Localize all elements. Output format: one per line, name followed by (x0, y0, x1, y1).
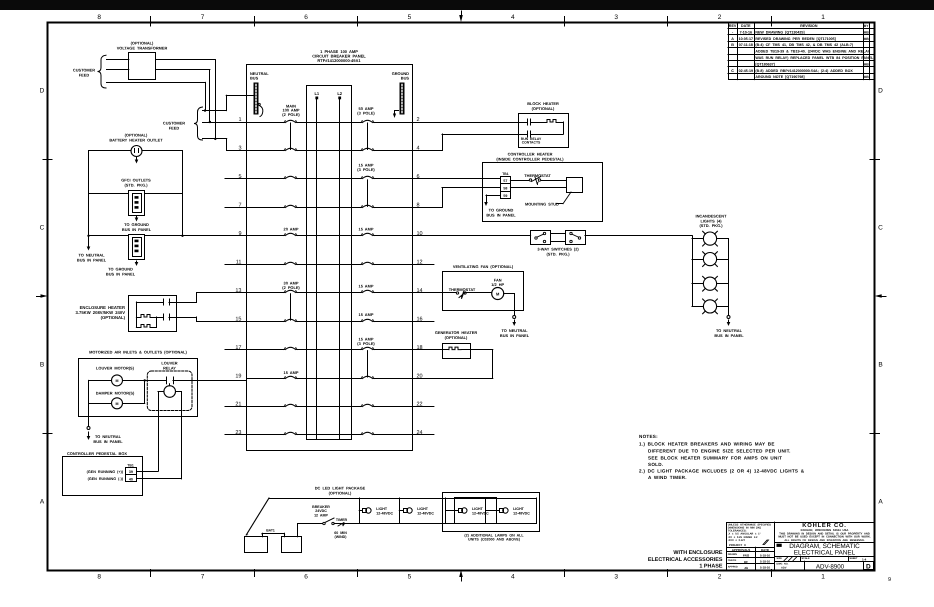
svg-text:12-48VDC: 12-48VDC (417, 511, 434, 515)
svg-text:BUS: BUS (401, 76, 410, 81)
svg-text:APPROVALS: APPROVALS (732, 548, 750, 552)
svg-text:THERMOSTAT: THERMOSTAT (524, 173, 551, 178)
svg-text:MOUNTING STUD: MOUNTING STUD (525, 201, 559, 206)
svg-text:DWG NO.: DWG NO. (777, 563, 789, 566)
svg-text:2.) DC LIGHT PACKAGE INCLUDES: 2.) DC LIGHT PACKAGE INCLUDES (2 OR 4) 1… (639, 469, 805, 474)
svg-text:DATE: DATE (761, 548, 769, 552)
svg-text:WITH ENCLOSURE: WITH ENCLOSURE (673, 550, 723, 556)
svg-text:VOLTAGE TRANSFORMER: VOLTAGE TRANSFORMER (117, 45, 168, 50)
svg-text:7-10-16: 7-10-16 (740, 30, 752, 34)
svg-text:REVISION: REVISION (800, 24, 818, 28)
svg-text:BUS IN PANEL: BUS IN PANEL (106, 271, 136, 276)
svg-text:(GEN RUNNING (-)): (GEN RUNNING (-)) (88, 477, 124, 481)
svg-text:24VDC: 24VDC (315, 509, 327, 513)
svg-text:(STD. PKG.): (STD. PKG.) (546, 251, 570, 256)
svg-text:B: B (40, 362, 44, 369)
svg-text:12-48VDC: 12-48VDC (376, 511, 393, 515)
svg-text:(OPTIONAL): (OPTIONAL) (101, 315, 126, 320)
svg-text:4: 4 (511, 14, 515, 21)
svg-text:07-11-18: 07-11-18 (739, 43, 753, 47)
svg-text:20 AMP: 20 AMP (284, 227, 299, 232)
svg-text:1: 1 (821, 574, 825, 581)
svg-text:LIGHT: LIGHT (376, 507, 388, 511)
svg-text:(2) ADDITIONAL LAMPS ON ALL: (2) ADDITIONAL LAMPS ON ALL (464, 533, 524, 537)
svg-text:ADV: ADV (781, 566, 787, 569)
svg-text:(3 POLE): (3 POLE) (357, 341, 375, 346)
svg-text:5-18-16: 5-18-16 (760, 553, 770, 557)
svg-text:LOUVER MOTOR(S): LOUVER MOTOR(S) (96, 366, 135, 371)
svg-text:(GEN RUNNING (+)): (GEN RUNNING (+)) (87, 470, 124, 474)
svg-text:8: 8 (97, 14, 101, 21)
svg-text:THERMOSTAT: THERMOSTAT (449, 287, 476, 292)
svg-text:39: 39 (129, 470, 133, 474)
svg-text:5-18-16: 5-18-16 (760, 566, 770, 570)
svg-text:12-48VDC: 12-48VDC (513, 511, 530, 515)
svg-text:BUS IN PANEL: BUS IN PANEL (122, 227, 152, 232)
svg-text:40: 40 (129, 477, 133, 481)
svg-text:3: 3 (614, 574, 618, 581)
svg-text:1 PHASE: 1 PHASE (699, 563, 722, 569)
svg-text:.XXX ± 0.127: .XXX ± 0.127 (728, 539, 746, 542)
svg-text:24: 24 (417, 430, 423, 436)
svg-text:CHECK: CHECK (728, 559, 737, 562)
svg-text:6: 6 (417, 174, 420, 180)
svg-text:02-45-19: 02-45-19 (739, 69, 753, 73)
svg-text:2: 2 (718, 14, 722, 21)
svg-text:(WIND): (WIND) (335, 535, 348, 539)
svg-text:BREAKER: BREAKER (312, 505, 330, 509)
svg-text:15 AMP: 15 AMP (359, 284, 374, 289)
svg-text:ALL RIGHTS OF DESIGN AND INVEN: ALL RIGHTS OF DESIGN AND INVENTION ARE R… (784, 539, 865, 542)
svg-text:L2: L2 (337, 91, 342, 96)
svg-text:FEED: FEED (79, 73, 90, 78)
svg-text:4: 4 (511, 574, 515, 581)
svg-text:7: 7 (201, 574, 205, 581)
svg-text:10: 10 (417, 231, 423, 237)
svg-text:C: C (40, 225, 45, 232)
svg-text:1.) BLOCK HEATER BREAKERS AND: 1.) BLOCK HEATER BREAKERS AND WIRING MAY… (639, 442, 775, 447)
svg-text:12-48VDC: 12-48VDC (472, 511, 489, 515)
svg-text:REV: REV (729, 24, 737, 28)
svg-text:1/2 HP: 1/2 HP (491, 282, 504, 287)
svg-text:MB: MB (864, 37, 870, 41)
svg-text:AROUND NOTE [QT190798]: AROUND NOTE [QT190798] (755, 75, 804, 79)
svg-text:CONTACTS: CONTACTS (522, 141, 541, 145)
svg-text:BATTERY HEATER OUTLET: BATTERY HEATER OUTLET (109, 138, 163, 143)
svg-text:D: D (40, 88, 45, 95)
svg-text:15 AMP: 15 AMP (359, 312, 374, 317)
svg-text:BUS IN PANEL: BUS IN PANEL (714, 333, 744, 338)
svg-text:FEED: FEED (169, 126, 180, 131)
svg-text:A: A (731, 37, 734, 41)
svg-text:BY: BY (864, 24, 869, 28)
svg-text:TB1: TB1 (502, 172, 509, 176)
svg-text:BUS IN PANEL: BUS IN PANEL (486, 212, 516, 217)
svg-text:[QT180637]: [QT180637] (755, 62, 774, 66)
svg-text:CONTROLLER PEDESTAL BOX: CONTROLLER PEDESTAL BOX (67, 451, 127, 456)
svg-text:(INSIDE CONTROLLER PEDESTAL): (INSIDE CONTROLLER PEDESTAL) (496, 156, 564, 161)
svg-text:D: D (866, 564, 871, 571)
svg-text:23: 23 (235, 430, 241, 436)
svg-text:UNITS (C02000 AND ABOVE): UNITS (C02000 AND ABOVE) (468, 538, 521, 542)
svg-text:3: 3 (614, 14, 618, 21)
svg-text:MB: MB (864, 75, 870, 79)
svg-text:58: 58 (503, 186, 507, 190)
svg-text:(OPTIONAL): (OPTIONAL) (445, 335, 468, 340)
svg-text:7: 7 (201, 14, 205, 21)
svg-text:TIMER: TIMER (336, 518, 348, 522)
svg-text:SHEET: SHEET (850, 557, 859, 560)
svg-text:FRG: FRG (743, 554, 750, 558)
svg-text:15 AMP: 15 AMP (359, 227, 374, 232)
svg-text:12 AMP: 12 AMP (314, 514, 328, 518)
svg-text:MOTORIZED AIR INLETS & OUTLETS: MOTORIZED AIR INLETS & OUTLETS (OPTIONAL… (89, 350, 187, 355)
svg-text:5: 5 (408, 574, 412, 581)
svg-text:(3 POLE): (3 POLE) (357, 111, 375, 116)
svg-text:LIGHT: LIGHT (513, 507, 525, 511)
svg-text:(3 POLE): (3 POLE) (357, 167, 375, 172)
svg-text:ELECTRICAL ACCESSORIES: ELECTRICAL ACCESSORIES (648, 557, 723, 563)
svg-text:NEW DRAWING [QT130425]: NEW DRAWING [QT130425] (755, 30, 804, 34)
svg-text:(OPTIONAL): (OPTIONAL) (329, 490, 352, 495)
svg-text:MB: MB (864, 62, 870, 66)
svg-text:(OPTIONAL): (OPTIONAL) (532, 106, 555, 111)
svg-text:DATE: DATE (741, 24, 751, 28)
svg-text:B: B (731, 43, 734, 47)
svg-text:NOTES:: NOTES: (639, 434, 658, 439)
svg-text:WAS RUN RELAY) REPLACED PANEL: WAS RUN RELAY) REPLACED PANEL WTB 84 POS… (755, 56, 874, 60)
svg-text:DAMPER MOTOR(S): DAMPER MOTOR(S) (96, 391, 135, 396)
svg-text:BUS IN PANEL: BUS IN PANEL (93, 439, 123, 444)
svg-text:DF: DF (744, 560, 748, 564)
svg-text:VENTILATING FAN (OPTIONAL): VENTILATING FAN (OPTIONAL) (453, 264, 514, 269)
svg-text:1: 1 (821, 14, 825, 21)
svg-text:ADDED TB19-39 & TB19-40. (24VD: ADDED TB19-39 & TB19-40. (24VDC WAS ENGI… (755, 50, 870, 54)
svg-text:A: A (878, 499, 883, 506)
svg-text:DIFFERENT DUE TO ENGINE SIZE S: DIFFERENT DUE TO ENGINE SIZE SELECTED PE… (648, 449, 791, 454)
svg-text:5-18-16: 5-18-16 (760, 559, 770, 563)
svg-text:SCALE: SCALE (802, 557, 811, 560)
svg-text:BUS IN PANEL: BUS IN PANEL (77, 257, 107, 262)
svg-text:REVISED DRAWING PER REDEN [QT1: REVISED DRAWING PER REDEN [QT171005] (755, 37, 836, 41)
svg-text:TB1: TB1 (127, 464, 134, 468)
svg-text:19: 19 (235, 373, 241, 379)
svg-text:(STD. PKG.): (STD. PKG.) (699, 223, 723, 228)
svg-text:2: 2 (718, 574, 722, 581)
svg-text:57: 57 (503, 179, 507, 183)
svg-text:(STD. PKG.): (STD. PKG.) (124, 183, 148, 188)
svg-text:SOLD.: SOLD. (648, 462, 663, 467)
svg-text:LIGHT: LIGHT (472, 507, 484, 511)
svg-text:(2 POLE): (2 POLE) (282, 112, 300, 117)
svg-text:A WIND TIMER.: A WIND TIMER. (648, 475, 687, 480)
svg-text:LIGHT: LIGHT (417, 507, 429, 511)
svg-text:15 AMP: 15 AMP (284, 370, 299, 375)
svg-text:9: 9 (238, 231, 241, 237)
svg-text:C: C (878, 225, 883, 232)
svg-text:B: B (878, 362, 882, 369)
svg-text:M: M (116, 379, 119, 383)
svg-text:9: 9 (888, 577, 891, 583)
svg-text:C: C (731, 69, 734, 73)
svg-text:M: M (116, 402, 119, 406)
svg-text:6: 6 (304, 14, 308, 21)
svg-text:BUS IN PANEL: BUS IN PANEL (500, 333, 530, 338)
svg-text:60 MIN: 60 MIN (334, 531, 347, 535)
svg-text:(B-4) CF TMS 41, DB TMS 42, &: (B-4) CF TMS 41, DB TMS 42, & DB TMS 42 … (755, 43, 853, 47)
svg-text:59: 59 (503, 194, 507, 198)
svg-text:APPRVD: APPRVD (728, 565, 738, 568)
svg-text:JG: JG (744, 566, 749, 570)
svg-text:D: D (878, 88, 883, 95)
svg-text:RELAY: RELAY (163, 365, 176, 370)
svg-text:DRAWN: DRAWN (728, 553, 737, 556)
svg-text:ELECTRICAL PANEL: ELECTRICAL PANEL (794, 549, 856, 556)
svg-text:BUS: BUS (250, 76, 259, 81)
svg-text:SIZE: SIZE (777, 557, 783, 560)
svg-text:L1: L1 (314, 91, 319, 96)
svg-text:10-05-17: 10-05-17 (739, 37, 753, 41)
svg-text:SEE BLOCK HEATER SUMMARY FOR A: SEE BLOCK HEATER SUMMARY FOR AMPS ON UNI… (648, 456, 782, 461)
svg-text:A: A (40, 499, 45, 506)
svg-text:1-4: 1-4 (862, 558, 867, 562)
svg-text:BAT1: BAT1 (266, 529, 275, 533)
svg-text:RTF#1412000000-49A1: RTF#1412000000-49A1 (317, 58, 361, 63)
svg-text:(2 POLE): (2 POLE) (282, 285, 300, 290)
svg-text:5: 5 (238, 174, 241, 180)
svg-text:ADV-8900: ADV-8900 (816, 563, 845, 570)
svg-text:(B-8) ADDED RBP#1412000000-54A: (B-8) ADDED RBP#1412000000-54A; (2-4) AD… (755, 69, 853, 73)
svg-text:5: 5 (408, 14, 412, 21)
svg-text:PROJECT X: PROJECT X (729, 543, 746, 547)
svg-text:8: 8 (97, 574, 101, 581)
svg-text:6: 6 (304, 574, 308, 581)
svg-text:MB: MB (864, 30, 870, 34)
